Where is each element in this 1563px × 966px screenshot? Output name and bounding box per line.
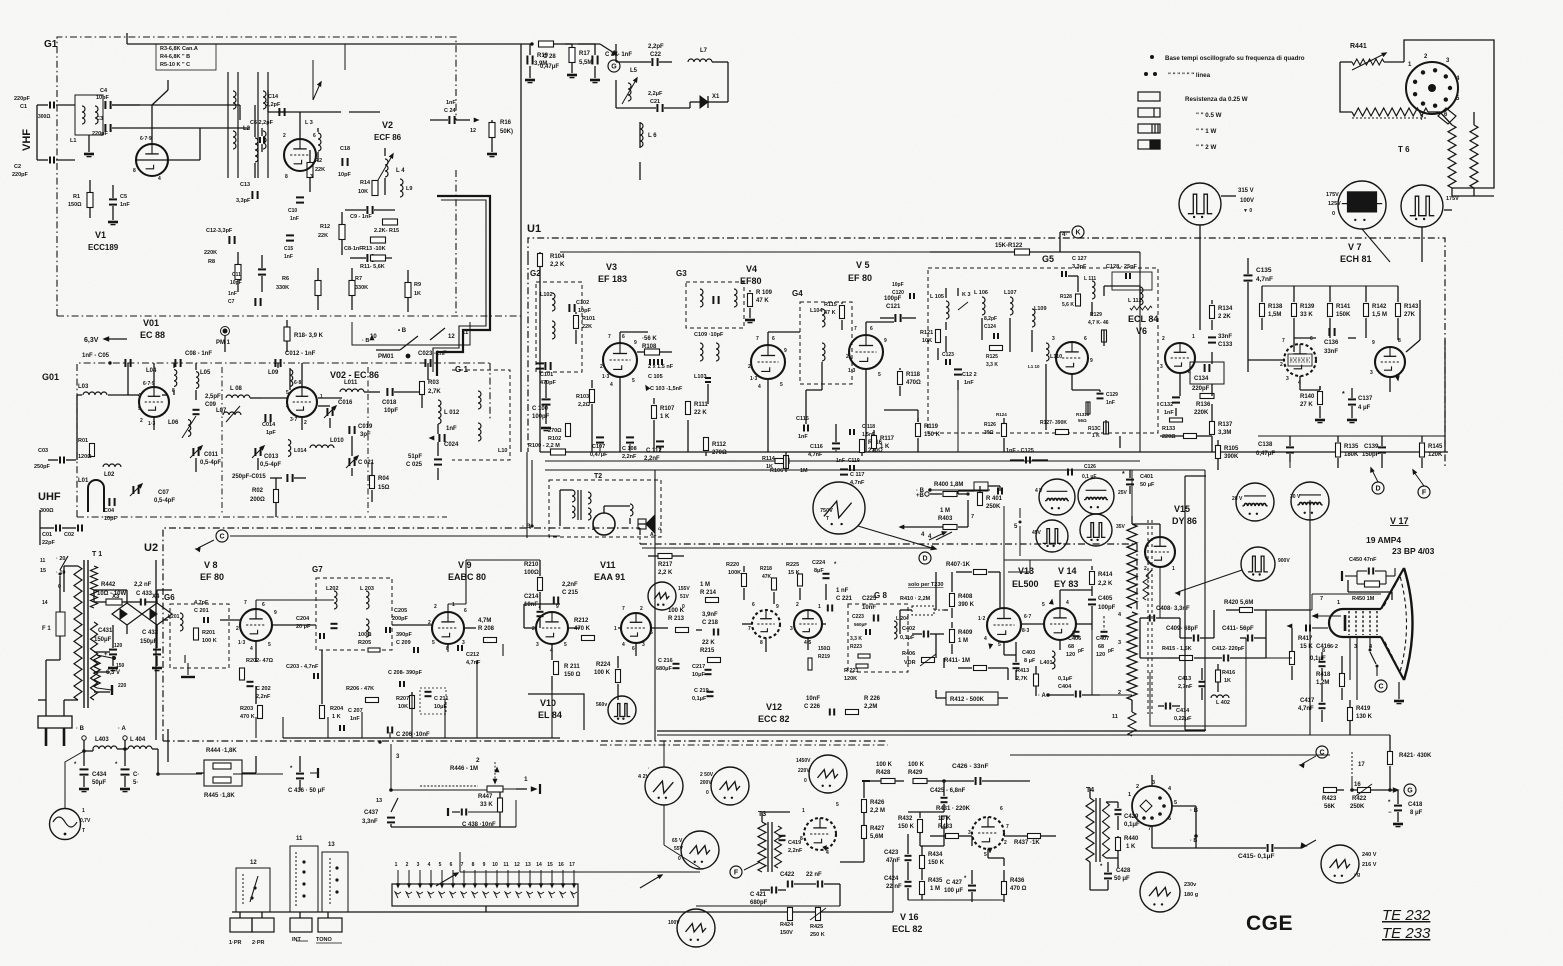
resistor R121 10K <box>936 330 941 343</box>
svg-text:L 6: L 6 <box>648 133 657 139</box>
coil L09 <box>290 370 293 387</box>
svg-text:0,47μF: 0,47μF <box>1256 451 1275 457</box>
coil L2 long windings <box>227 72 229 178</box>
svg-text:3,3M: 3,3M <box>1218 430 1231 436</box>
svg-text:100pF: 100pF <box>532 414 550 420</box>
switch arrow f <box>640 876 660 888</box>
svg-text:R423: R423 <box>1322 796 1337 802</box>
svg-text:L014: L014 <box>294 448 307 454</box>
svg-text:10nF: 10nF <box>524 602 538 608</box>
svg-text:2: 2 <box>304 420 307 426</box>
resistor R142 1,5M <box>1364 304 1369 317</box>
svg-text:*: * <box>1342 391 1345 398</box>
svg-text:V2: V2 <box>382 120 393 130</box>
svg-text:13: 13 <box>525 862 531 868</box>
coil L201 <box>180 613 183 631</box>
svg-text:8: 8 <box>285 174 288 180</box>
oscillogram 28V <box>1236 483 1274 521</box>
svg-text:C3: C3 <box>96 116 103 122</box>
svg-text:5: 5 <box>836 802 839 808</box>
oscillogram 30V <box>1291 482 1329 520</box>
svg-text:0: 0 <box>706 790 709 796</box>
resistor R101 22K <box>574 316 579 329</box>
svg-text:0,5-4pF: 0,5-4pF <box>154 498 175 504</box>
svg-text:V6: V6 <box>1136 326 1147 336</box>
svg-text:4: 4 <box>1066 600 1069 606</box>
svg-text:120K: 120K <box>1428 452 1443 458</box>
svg-text:R115: R115 <box>824 302 837 308</box>
coil L2 <box>255 138 258 162</box>
coil L1 input <box>75 95 103 135</box>
svg-text:220K: 220K <box>204 250 217 256</box>
svg-text:4,7nF: 4,7nF <box>466 660 481 666</box>
svg-text:R422: R422 <box>1352 796 1367 802</box>
CRT neck grid dashes <box>1348 611 1350 635</box>
svg-text:C217: C217 <box>692 664 705 670</box>
svg-text:120K: 120K <box>844 676 857 682</box>
resistor R04 15 <box>370 476 375 489</box>
svg-text:L1 10: L1 10 <box>1028 364 1040 369</box>
flyback dashed core <box>1147 520 1149 714</box>
svg-text:1,5nF: 1,5nF <box>862 432 875 438</box>
svg-text:1: 1 <box>1128 792 1131 798</box>
resistor R140 27K <box>1318 392 1323 405</box>
svg-text:EL500: EL500 <box>1012 579 1039 589</box>
svg-text:G2: G2 <box>530 269 541 278</box>
svg-text:5: 5 <box>432 640 435 646</box>
comb arrows <box>397 884 400 887</box>
wire V9 plate up <box>447 604 449 612</box>
svg-text:2: 2 <box>283 133 286 139</box>
coil L02b <box>103 464 121 467</box>
trimmer UHF <box>132 486 134 494</box>
svg-text:300Ω: 300Ω <box>38 114 50 120</box>
svg-text:Base tempi oscillografo su: Base tempi oscillografo su frequenza di … <box>1165 55 1305 62</box>
svg-text:R420 5,6M: R420 5,6M <box>1224 600 1253 606</box>
svg-text:1nF - C125: 1nF - C125 <box>1006 448 1034 454</box>
svg-text:33 K: 33 K <box>480 802 493 808</box>
wire B A feed lines <box>158 773 202 775</box>
capacitor C139 150pF <box>1378 446 1386 448</box>
svg-text:L 404: L 404 <box>130 737 146 743</box>
tube socket T6 <box>1406 62 1458 114</box>
coil L110 <box>1046 343 1049 361</box>
svg-text:11: 11 <box>1112 714 1118 720</box>
svg-text:2 2K: 2 2K <box>1218 314 1231 320</box>
coil L103a <box>700 289 703 307</box>
wire B+ rail U1 lower <box>540 451 1448 453</box>
svg-text:120: 120 <box>1066 652 1075 658</box>
resistor R414 2,2K <box>1090 572 1095 585</box>
svg-text:3·7: 3·7 <box>290 417 297 423</box>
svg-text:150 K: 150 K <box>928 860 945 866</box>
resistor R425 250K <box>816 908 821 921</box>
svg-text:8: 8 <box>472 862 475 868</box>
svg-text:C15: C15 <box>284 246 293 252</box>
tube V8 EF80 <box>240 609 272 641</box>
svg-text:8: 8 <box>760 640 763 646</box>
svg-text:R220: R220 <box>726 562 739 568</box>
vertical bus x=521 <box>520 44 522 452</box>
svg-text:6: 6 <box>1000 806 1003 812</box>
capacitor C15 1nF <box>286 234 294 236</box>
svg-text:2,2 K: 2,2 K <box>550 262 565 268</box>
tube V3 EF183 <box>603 343 637 377</box>
speaker output circle <box>50 809 81 840</box>
svg-text:C 209: C 209 <box>396 640 411 646</box>
svg-text:120Ω: 120Ω <box>78 454 92 460</box>
svg-text:EF80: EF80 <box>740 276 762 286</box>
legend resistor 2W <box>1138 140 1160 149</box>
svg-text:R139: R139 <box>1300 304 1315 310</box>
svg-text:C123: C123 <box>942 352 954 358</box>
capacitor C9-1nF <box>366 206 368 214</box>
svg-text:▼ 0: ▼ 0 <box>1243 208 1252 214</box>
svg-text:R11- 5,6K: R11- 5,6K <box>360 264 385 270</box>
box G6 <box>170 604 229 668</box>
svg-text:0,5-4pF: 0,5-4pF <box>260 462 281 468</box>
svg-text:EC 88: EC 88 <box>140 330 165 340</box>
svg-text:Resistenza da 0.25 W: Resistenza da 0.25 W <box>1185 96 1248 103</box>
svg-text:2,2M: 2,2M <box>864 704 877 710</box>
svg-text:C 427: C 427 <box>946 880 963 886</box>
svg-text:1·3: 1·3 <box>602 374 609 380</box>
svg-text:C404: C404 <box>1058 684 1072 690</box>
svg-text:150pF: 150pF <box>1362 452 1380 458</box>
svg-text:0,47μF: 0,47μF <box>590 452 608 458</box>
box G1 right sub <box>452 370 510 460</box>
svg-text:R431 · 220K: R431 · 220K <box>936 806 971 812</box>
svg-text:R03: R03 <box>428 380 440 386</box>
svg-text:270Ω: 270Ω <box>712 450 727 456</box>
wires V7 top <box>1262 285 1398 287</box>
svg-text:C·: C· <box>133 772 139 778</box>
capacitor 51pF C025 <box>434 458 442 460</box>
svg-text:10pF: 10pF <box>338 172 351 178</box>
svg-text:100 μF: 100 μF <box>944 888 963 894</box>
svg-text:220V: 220V <box>798 768 810 774</box>
svg-text:1nF: 1nF <box>1164 410 1174 416</box>
svg-text:10K: 10K <box>398 704 408 710</box>
svg-text:4: 4 <box>622 642 625 648</box>
svg-text:−: − <box>1388 810 1392 816</box>
svg-text:470 K: 470 K <box>240 714 255 720</box>
svg-text:L09: L09 <box>268 370 279 376</box>
svg-text:G3: G3 <box>676 269 687 278</box>
resistor R12 22K <box>339 225 345 240</box>
svg-text:R206 - 47K: R206 - 47K <box>346 686 374 692</box>
capacitor C136 33nF <box>1328 328 1330 336</box>
wire y500 net <box>932 489 990 491</box>
svg-text:C120: C120 <box>892 290 904 296</box>
tube V6 ECL84 pentode section <box>1056 342 1088 374</box>
svg-text:1 K: 1 K <box>1092 433 1100 439</box>
tube V11 EAA91 <box>621 613 651 643</box>
svg-text:R18- 3,9 K: R18- 3,9 K <box>294 333 324 339</box>
capacitor C405 100pF <box>1088 599 1096 601</box>
svg-text:R121: R121 <box>920 330 933 336</box>
svg-text:R435: R435 <box>928 878 943 884</box>
svg-text:R12: R12 <box>320 224 330 230</box>
svg-text:4,7pF: 4,7pF <box>194 600 209 606</box>
svg-text:50μF: 50μF <box>92 780 106 786</box>
svg-text:R1: R1 <box>73 194 80 200</box>
svg-text:10K: 10K <box>922 338 932 344</box>
legend resistor 0.5W <box>1138 108 1160 117</box>
svg-text:C417: C417 <box>1300 698 1315 704</box>
svg-text:2,2nF: 2,2nF <box>788 848 803 854</box>
svg-text:C419: C419 <box>788 840 801 846</box>
svg-text:560pF: 560pF <box>854 622 867 627</box>
resistor 56K R108 <box>645 349 660 355</box>
capacitor C115 1nF <box>803 425 805 432</box>
border U2 right segment <box>640 543 1137 545</box>
svg-text:L 204: L 204 <box>896 616 909 622</box>
svg-text:240 V: 240 V <box>1362 852 1377 858</box>
svg-text:X1: X1 <box>712 94 720 100</box>
svg-text:C412- 220pF: C412- 220pF <box>1212 646 1245 652</box>
svg-text:4,7nF: 4,7nF <box>808 452 823 458</box>
node C left <box>216 530 228 542</box>
svg-text:5: 5 <box>286 390 289 396</box>
svg-text:C 208- 390pF: C 208- 390pF <box>388 670 423 676</box>
svg-text:R432: R432 <box>898 816 913 822</box>
coil L07 trim <box>223 412 241 415</box>
svg-text:10 K: 10 K <box>938 816 951 822</box>
svg-text:R114: R114 <box>762 456 776 462</box>
svg-text:3,9nF: 3,9nF <box>702 612 718 618</box>
capacitor C100 100pF <box>542 398 551 400</box>
svg-text:V10: V10 <box>540 698 556 708</box>
box G4 <box>800 302 852 384</box>
svg-text:L010: L010 <box>330 438 344 444</box>
wire vert x1205 <box>1204 470 1206 731</box>
capacitor C13 3,3pF <box>251 191 253 199</box>
svg-text:L7: L7 <box>700 48 708 54</box>
capacitor C108 2,2nF <box>626 436 634 438</box>
svg-text:INT: INT <box>292 937 302 943</box>
svg-text:330K: 330K <box>355 285 368 291</box>
wires y755 right <box>1010 754 1330 756</box>
svg-text:3: 3 <box>1052 336 1055 342</box>
CRT ground line <box>1398 682 1400 699</box>
coil L6 <box>640 123 643 147</box>
coil L5 trim <box>628 83 631 101</box>
legend line quadro <box>1150 55 1154 59</box>
svg-text:pF: pF <box>1108 648 1114 654</box>
svg-text:2 50V: 2 50V <box>700 772 714 778</box>
svg-text:R02: R02 <box>252 488 264 494</box>
svg-text:15: 15 <box>40 568 46 574</box>
svg-text:C423: C423 <box>884 850 899 856</box>
svg-text:7: 7 <box>1006 824 1009 830</box>
svg-text:5: 5 <box>564 642 567 648</box>
resistor R412-500K <box>946 692 998 705</box>
svg-text:10nF: 10nF <box>806 696 820 702</box>
svg-text:390pF: 390pF <box>396 632 413 638</box>
svg-text:2: 2 <box>476 757 480 764</box>
svg-text:30 V: 30 V <box>1290 494 1301 500</box>
svg-text:C03: C03 <box>38 448 48 454</box>
svg-text:L102: L102 <box>540 292 553 298</box>
svg-text:C 118: C 118 <box>862 424 875 430</box>
UHF loop L01 <box>88 480 104 512</box>
svg-text:R410 · 2,2M: R410 · 2,2M <box>900 596 931 602</box>
svg-text:3: 3 <box>536 642 539 648</box>
svg-text:1nF: 1nF <box>446 426 457 432</box>
svg-text:L9: L9 <box>406 186 412 192</box>
coil L011 <box>340 389 364 392</box>
svg-text:150K: 150K <box>1336 312 1351 318</box>
svg-text:L 402: L 402 <box>1216 700 1230 706</box>
svg-text:C402: C402 <box>902 626 915 632</box>
svg-text:47K: 47K <box>762 574 772 580</box>
svg-text:R 401: R 401 <box>986 496 1003 502</box>
wire selector bus <box>232 911 893 913</box>
svg-text:C 24: C 24 <box>444 108 457 114</box>
svg-text:9: 9 <box>556 604 559 610</box>
oscillogram 25V <box>1078 478 1114 514</box>
svg-text:R117: R117 <box>880 436 895 442</box>
oscillogram 4V <box>1039 479 1075 515</box>
resistor R01 120 <box>90 444 95 457</box>
coil L104 <box>822 309 825 327</box>
svg-text:C437: C437 <box>364 810 379 816</box>
svg-text:R4-6,8K " B: R4-6,8K " B <box>160 54 190 60</box>
block G1 border <box>57 37 456 316</box>
svg-text:" " 2 W: " " 2 W <box>1196 144 1216 151</box>
svg-text:R218: R218 <box>760 566 772 572</box>
resistor R02 200 <box>274 490 279 503</box>
svg-text:65 V: 65 V <box>672 838 683 844</box>
svg-text:R426: R426 <box>870 800 885 806</box>
resistor R143 27K <box>1396 304 1401 317</box>
oscillogram 750V <box>813 482 865 534</box>
svg-text:330K: 330K <box>276 285 289 291</box>
svg-text:R105: R105 <box>1224 446 1239 452</box>
svg-text:3,3 K: 3,3 K <box>850 636 862 642</box>
svg-text:U2: U2 <box>144 542 158 554</box>
svg-text:R202- 47Ω: R202- 47Ω <box>246 658 274 664</box>
svg-text:10μF: 10μF <box>692 672 705 678</box>
svg-text:R125: R125 <box>986 354 998 360</box>
svg-text:51V: 51V <box>680 594 690 600</box>
svg-text:2,2 K: 2,2 K <box>658 570 673 576</box>
svg-text:0,47μF: 0,47μF <box>540 64 559 70</box>
svg-text:C124: C124 <box>984 324 996 330</box>
svg-text:7: 7 <box>608 334 611 340</box>
svg-text:470pF: 470pF <box>540 380 557 386</box>
svg-text:R 221: R 221 <box>844 668 859 674</box>
coil L9 <box>400 179 403 197</box>
svg-text:V11: V11 <box>600 560 616 570</box>
svg-text:1nF: 1nF <box>446 100 456 106</box>
svg-text:10pF: 10pF <box>96 95 109 101</box>
svg-text:2,2nF: 2,2nF <box>622 454 637 460</box>
test point PM1 <box>223 329 228 334</box>
svg-text:14: 14 <box>42 600 48 606</box>
svg-text:" " 1 W: " " 1 W <box>1196 128 1216 135</box>
svg-text:" " ": " " " " " " linea <box>1168 72 1211 79</box>
resistor R109 47K <box>748 294 753 307</box>
resistor R114 1K <box>784 456 789 469</box>
svg-text:6: 6 <box>1310 336 1313 342</box>
svg-text:175V: 175V <box>1446 196 1459 202</box>
svg-text:220: 220 <box>118 683 127 689</box>
svg-text:CGE: CGE <box>1246 912 1293 935</box>
svg-text:C21: C21 <box>650 99 660 105</box>
wire U2 bottom bus <box>283 737 560 739</box>
svg-text:C115: C115 <box>796 416 809 422</box>
svg-text:0,1μF: 0,1μF <box>1124 822 1140 828</box>
resistor T6 zig v pair <box>1448 125 1456 188</box>
coil L109 <box>1032 309 1035 327</box>
svg-text:C2: C2 <box>14 164 21 170</box>
svg-text:6: 6 <box>313 133 316 139</box>
oscillogram 65V <box>681 831 719 869</box>
svg-text:2: 2 <box>1280 362 1283 368</box>
resistor R204 1K <box>320 706 325 719</box>
svg-text:10pF: 10pF <box>104 516 117 522</box>
svg-text:7: 7 <box>1148 826 1151 832</box>
oscillogram 560V small <box>608 696 636 724</box>
svg-text:C8-1nF: C8-1nF <box>344 246 363 252</box>
switch 12 11 lower <box>400 336 418 350</box>
svg-text:C14: C14 <box>268 94 279 100</box>
svg-text:150μF: 150μF <box>94 637 112 643</box>
wire v2 plate top <box>299 112 301 139</box>
resistor R138 1,5M <box>1260 304 1265 317</box>
svg-text:5: 5 <box>998 642 1001 648</box>
tube V4 EF80 <box>751 345 785 379</box>
svg-text:R417: R417 <box>1298 636 1313 642</box>
svg-text:C135: C135 <box>1256 267 1272 274</box>
resistor R128 5,6K <box>1076 294 1081 306</box>
svg-text:R128: R128 <box>1060 294 1072 300</box>
svg-text:VDR: VDR <box>904 660 916 666</box>
wire v1 plate <box>151 105 153 144</box>
svg-text:· A: · A <box>118 726 126 732</box>
svg-text:125V: 125V <box>1328 201 1341 207</box>
capacitor C14 2,2pF <box>278 108 280 116</box>
svg-text:2,2 K: 2,2 K <box>1098 581 1113 587</box>
svg-text:C137: C137 <box>1358 396 1373 402</box>
svg-text:R111: R111 <box>694 402 708 408</box>
svg-text:1·PR: 1·PR <box>229 940 242 946</box>
resistor R1 150 <box>87 193 93 208</box>
svg-text:1·3: 1·3 <box>750 376 757 382</box>
svg-text:EAA 91: EAA 91 <box>594 572 625 582</box>
svg-text:1·2: 1·2 <box>978 616 985 622</box>
svg-text:3: 3 <box>642 642 645 648</box>
svg-text:R429: R429 <box>908 770 923 776</box>
svg-text:1,5 M: 1,5 M <box>1372 312 1387 318</box>
svg-text:1 K: 1 K <box>660 414 670 420</box>
svg-text:V 16: V 16 <box>900 912 919 922</box>
svg-text:100pF: 100pF <box>1098 605 1116 611</box>
resistor R107 1K <box>652 406 657 419</box>
svg-text:C 216: C 216 <box>658 658 673 664</box>
svg-text:C10: C10 <box>288 208 297 214</box>
svg-text:R 208: R 208 <box>478 626 495 632</box>
capacitor C3 220pF <box>104 124 106 132</box>
svg-text:16: 16 <box>558 862 564 868</box>
svg-text:6·7: 6·7 <box>1024 614 1031 620</box>
svg-text:5: 5 <box>1042 602 1045 608</box>
svg-text:R450 1M: R450 1M <box>1352 596 1375 602</box>
svg-text:22 K: 22 K <box>702 640 715 646</box>
wire top feed to R19 <box>127 43 532 45</box>
